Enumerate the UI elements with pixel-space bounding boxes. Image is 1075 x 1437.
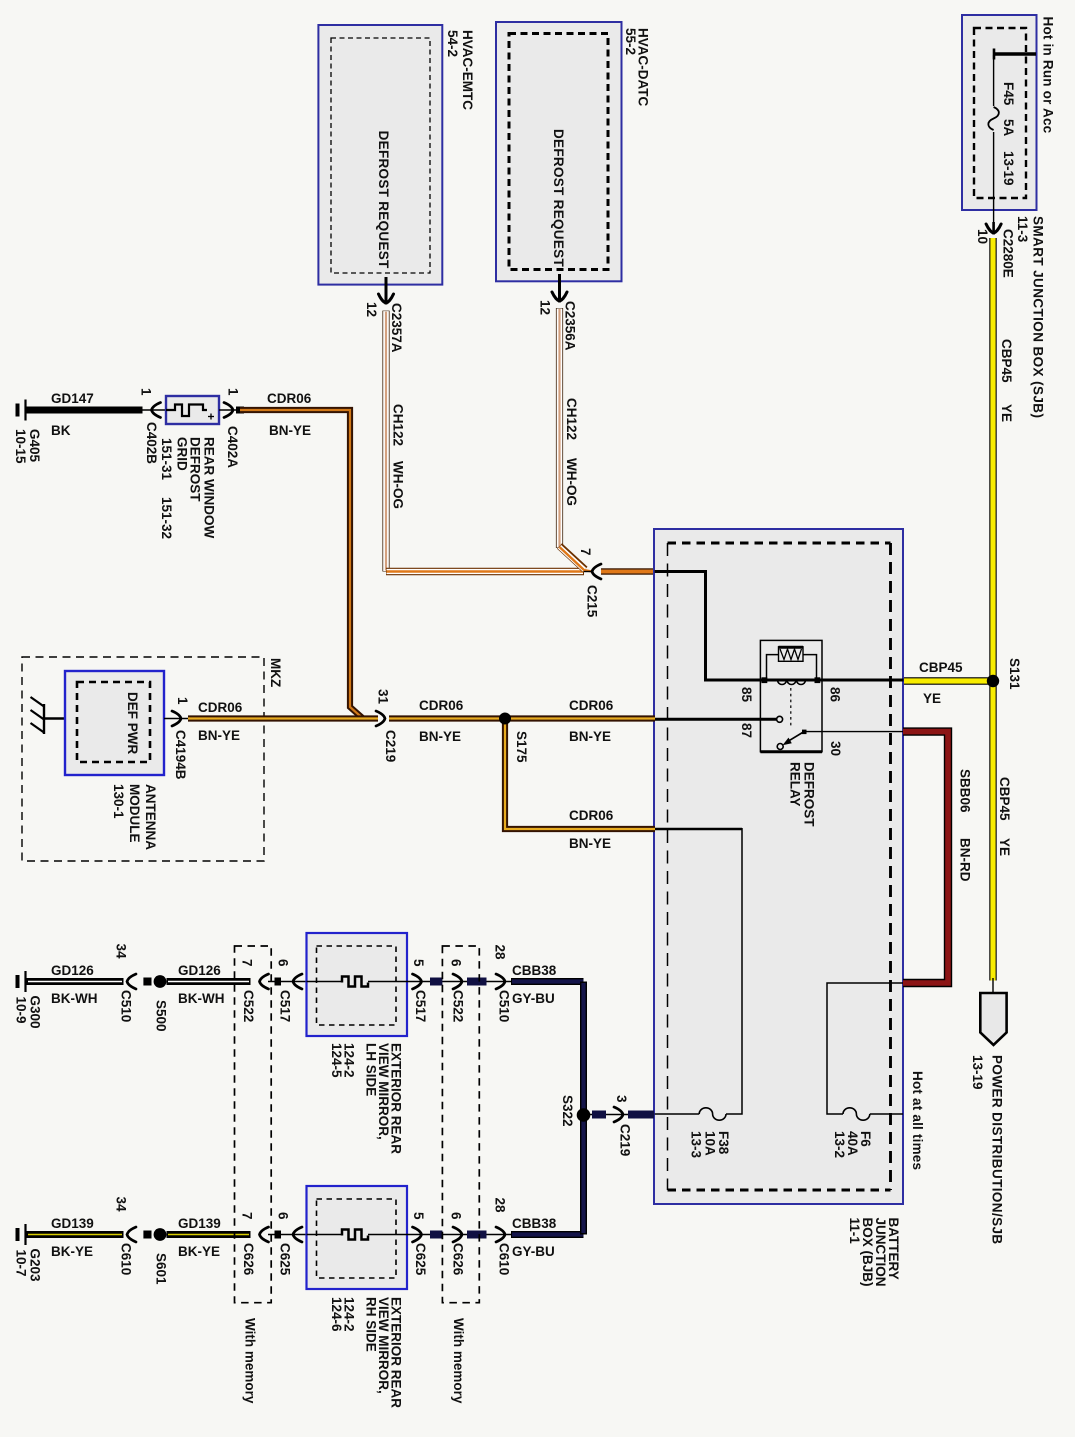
connector C517 right stub <box>430 978 442 986</box>
wire CH122 WH-OG from C2356A (vertical) <box>556 308 563 548</box>
fuse F45 element <box>988 107 999 130</box>
svg-text:BK-WH: BK-WH <box>51 991 98 1006</box>
svg-text:6: 6 <box>448 1212 463 1220</box>
connector C610 pin 34 arrow <box>127 1227 136 1242</box>
svg-text:YE: YE <box>923 691 941 706</box>
wire CBB38 GY-BU vertical to S322 <box>580 982 587 1235</box>
relay box DEFROST RELAY <box>760 640 822 751</box>
wire CH122 WH-OG diagonal into junction <box>560 546 586 570</box>
connector C517 pin 5 arrow <box>413 974 422 989</box>
svg-text:MODULE: MODULE <box>127 784 142 843</box>
mirror inner dashed border <box>317 1199 397 1278</box>
relay junction dot right <box>815 677 821 683</box>
connector C510 stub <box>143 978 151 986</box>
svg-text:SBB06: SBB06 <box>957 769 972 813</box>
svg-text:10-7: 10-7 <box>13 1250 28 1277</box>
svg-text:85: 85 <box>739 687 754 703</box>
wire CDR06 BN-YE from grid <box>240 410 363 719</box>
wire inside BJB from C215 to relay coil <box>655 572 761 681</box>
svg-text:GRID: GRID <box>174 437 189 471</box>
svg-text:5A: 5A <box>1001 119 1016 137</box>
svg-text:CBP45: CBP45 <box>999 339 1014 383</box>
svg-text:BK-YE: BK-YE <box>51 1244 93 1259</box>
connector C610 stub <box>143 1231 151 1239</box>
grid plus mark <box>208 416 214 418</box>
svg-text:5: 5 <box>411 959 426 967</box>
wire CBP45 YE main rail <box>989 238 996 981</box>
relay pivot square <box>802 730 807 735</box>
svg-text:With memory: With memory <box>451 1318 466 1404</box>
svg-text:BN-YE: BN-YE <box>269 423 311 438</box>
bus bar feeding fuse F45 <box>994 52 1036 56</box>
connector C215 pin 7 arrow <box>592 564 601 579</box>
svg-text:34: 34 <box>113 1197 128 1213</box>
svg-text:C610: C610 <box>118 1243 133 1275</box>
relay thermal element zigzag <box>780 649 802 660</box>
svg-text:With memory: With memory <box>242 1318 257 1404</box>
module HVAC-DATC box <box>496 22 622 281</box>
connector C4194B pin 1 arrow <box>172 711 181 726</box>
svg-text:BN-YE: BN-YE <box>569 836 611 851</box>
svg-text:30: 30 <box>828 741 843 756</box>
relay junction dot left <box>762 677 768 683</box>
svg-text:28: 28 <box>492 1198 507 1214</box>
svg-text:GY-BU: GY-BU <box>512 1244 555 1259</box>
svg-text:54-2: 54-2 <box>445 30 460 57</box>
SJB fuse box inner dashed border <box>974 28 1026 198</box>
svg-text:BN-RD: BN-RD <box>957 838 972 882</box>
wire SBB06 BN-RD <box>903 732 948 983</box>
wire WH-OG stub into BJB <box>601 568 655 574</box>
svg-text:F45: F45 <box>1001 82 1016 106</box>
wire CDR06 BN-YE C4194B to C219 <box>188 715 378 721</box>
connector C625 pin 6 arrow <box>293 1227 302 1242</box>
svg-text:CBB38: CBB38 <box>512 963 557 978</box>
svg-text:ANTENNA: ANTENNA <box>143 784 158 850</box>
svg-text:BN-YE: BN-YE <box>419 729 461 744</box>
svg-text:C219: C219 <box>383 730 398 762</box>
relay contact 87 circle <box>777 716 783 722</box>
svg-text:CH122: CH122 <box>390 404 405 446</box>
svg-text:S175: S175 <box>514 731 529 763</box>
svg-text:Hot at all times: Hot at all times <box>910 1071 925 1170</box>
relay thermal parallel branch left <box>767 655 779 680</box>
svg-text:S601: S601 <box>153 1253 168 1285</box>
svg-text:C625: C625 <box>277 1243 292 1276</box>
wire GD147 BK <box>27 407 143 414</box>
relay thermal element box <box>779 647 804 662</box>
svg-text:HVAC-EMTC: HVAC-EMTC <box>460 30 475 110</box>
svg-text:11-1: 11-1 <box>847 1218 862 1245</box>
POWER DISTRIBUTION/SJB off-page arrow <box>980 993 1006 1045</box>
svg-text:DEF PWR: DEF PWR <box>125 692 140 754</box>
svg-text:7: 7 <box>239 1212 254 1220</box>
wire merge into C215 <box>584 571 592 573</box>
svg-text:31: 31 <box>375 689 390 705</box>
fuse F38 element <box>699 1108 726 1120</box>
exterior mirror box <box>307 1186 408 1289</box>
svg-text:WH-OG: WH-OG <box>564 458 579 506</box>
connector C2280E pin 10 arrow <box>986 224 1001 233</box>
wire mirror to harness <box>407 1234 511 1236</box>
wire CDR06 lower branch inside BJB <box>655 828 742 830</box>
DEF PWR inner dashed border <box>77 682 150 762</box>
svg-text:5: 5 <box>411 1212 426 1220</box>
ground G405 <box>24 400 26 421</box>
antenna chassis symbol <box>43 704 45 734</box>
svg-text:7: 7 <box>239 959 254 967</box>
wire to C402B <box>140 409 166 411</box>
svg-text:C510: C510 <box>496 990 511 1022</box>
svg-text:S131: S131 <box>1007 658 1022 690</box>
wire antenna to DEF PWR box <box>44 717 65 720</box>
wire relay 30 to BJB edge <box>804 731 903 733</box>
wire lead to power distribution arrow <box>992 978 994 993</box>
mirror heater element <box>307 981 408 983</box>
svg-text:G405: G405 <box>27 429 42 463</box>
wire GD126 BK-WH segment 2 <box>167 978 251 985</box>
relay contact lower circle <box>777 744 783 750</box>
splice S322 dot <box>577 1108 591 1122</box>
svg-text:SMART JUNCTION BOX (SJB): SMART JUNCTION BOX (SJB) <box>1030 216 1045 418</box>
connector C625 square <box>275 1231 282 1239</box>
svg-text:CDR06: CDR06 <box>569 698 614 713</box>
wire CBB38 GY-BU <box>511 1231 584 1238</box>
svg-text:LH SIDE: LH SIDE <box>363 1043 378 1096</box>
svg-text:C402A: C402A <box>225 426 240 468</box>
svg-text:GD139: GD139 <box>51 1216 94 1231</box>
wire inside BJB to fuse F6 <box>827 983 903 1114</box>
svg-text:G300: G300 <box>27 996 42 1029</box>
wire relay 86 to BJB edge <box>822 679 904 682</box>
svg-text:C510: C510 <box>118 990 133 1022</box>
splice S601 dot <box>154 1228 167 1241</box>
exterior mirror box <box>307 933 408 1036</box>
svg-text:55-2: 55-2 <box>623 28 638 55</box>
connector C2356A pin 12 arrow <box>552 292 567 301</box>
svg-text:87: 87 <box>739 723 754 738</box>
wire S322 to C219 pin 3 <box>590 1114 654 1116</box>
connector C219 stub left <box>592 1111 606 1119</box>
svg-text:10A: 10A <box>702 1131 717 1156</box>
wire fuse F6 to hot at all times feed <box>870 1113 903 1115</box>
svg-text:C517: C517 <box>413 990 428 1022</box>
svg-text:C626: C626 <box>450 1243 465 1276</box>
wire grid to C402A <box>219 409 240 411</box>
connector C522 right stub <box>467 978 487 986</box>
relay switch dashed actuator line <box>790 688 792 728</box>
svg-text:BK-YE: BK-YE <box>178 1244 220 1259</box>
connector C610 pin 28 arrow <box>496 1227 505 1242</box>
svg-text:CBP45: CBP45 <box>997 777 1012 821</box>
wire CBP45 YE branch BJB to S131 <box>904 677 993 684</box>
MKZ dashed box <box>22 657 264 861</box>
svg-text:BN-YE: BN-YE <box>198 728 240 743</box>
pin stub C2356A <box>558 274 561 300</box>
svg-text:C517: C517 <box>277 990 292 1022</box>
connector C625 right stub <box>430 1231 442 1239</box>
grid element symbol <box>166 405 207 417</box>
svg-text:C219: C219 <box>617 1124 632 1156</box>
svg-text:Hot in Run or Acc: Hot in Run or Acc <box>1040 17 1055 134</box>
svg-text:RELAY: RELAY <box>787 762 802 807</box>
svg-text:6: 6 <box>275 959 290 967</box>
BJB inner dashed border <box>668 542 891 545</box>
svg-text:GY-BU: GY-BU <box>512 991 555 1006</box>
svg-text:10: 10 <box>975 229 990 244</box>
relay thermal parallel branch right <box>803 655 817 680</box>
svg-text:C625: C625 <box>413 1243 428 1276</box>
svg-text:12: 12 <box>537 300 552 315</box>
wire stub after C402A <box>236 407 244 414</box>
connector C626 pin 6 arrow <box>453 1227 462 1242</box>
svg-text:130-1: 130-1 <box>111 784 126 819</box>
svg-text:C2356A: C2356A <box>562 301 577 351</box>
with-memory dashed strip 1 <box>235 946 272 1303</box>
mirror heater element <box>307 1234 408 1236</box>
svg-text:GD139: GD139 <box>178 1216 221 1231</box>
HVAC-EMTC inner dashed border <box>331 38 430 273</box>
connector C626 pin 7 arrow <box>260 1227 269 1242</box>
svg-text:G203: G203 <box>27 1249 42 1283</box>
svg-text:POWER DISTRIBUTION/SJB: POWER DISTRIBUTION/SJB <box>989 1055 1004 1245</box>
svg-text:S322: S322 <box>560 1095 575 1127</box>
pin stub C2357A <box>385 277 388 303</box>
svg-text:RH SIDE: RH SIDE <box>363 1297 378 1352</box>
connector C510 pin 34 arrow <box>127 974 136 989</box>
svg-text:CDR06: CDR06 <box>419 698 464 713</box>
wire fuse F45 upper lead <box>993 55 995 106</box>
connector C219 stub right <box>628 1111 654 1119</box>
svg-text:BN-YE: BN-YE <box>569 729 611 744</box>
svg-text:C522: C522 <box>450 990 465 1022</box>
wire mirror to harness <box>407 981 511 983</box>
battery junction box (BJB) outline <box>654 529 903 1204</box>
wire into connector squares <box>268 1234 307 1236</box>
connector C522 pin 7 arrow <box>260 974 269 989</box>
svg-text:C2280E: C2280E <box>1000 229 1015 278</box>
connector C522 pin 6 arrow <box>453 974 462 989</box>
svg-text:YE: YE <box>999 404 1014 422</box>
svg-text:7: 7 <box>578 548 593 556</box>
HVAC-DATC inner dashed border (thick) <box>509 34 608 270</box>
svg-text:C522: C522 <box>241 990 256 1022</box>
svg-text:13-3: 13-3 <box>688 1131 703 1159</box>
svg-text:6: 6 <box>448 959 463 967</box>
svg-text:12: 12 <box>364 302 379 317</box>
svg-text:C4194B: C4194B <box>173 730 188 780</box>
svg-text:GD126: GD126 <box>51 963 94 978</box>
svg-text:3: 3 <box>614 1095 629 1103</box>
svg-text:GD126: GD126 <box>178 963 221 978</box>
wire CDR06 into relay 87 <box>655 718 777 721</box>
svg-text:CDR06: CDR06 <box>569 808 614 823</box>
SJB fuse box F45 outline <box>962 15 1037 210</box>
wire CH122 WH-OG from C2357A (vertical) <box>382 311 389 572</box>
svg-text:DEFROST REQUEST: DEFROST REQUEST <box>376 131 391 269</box>
svg-text:DEFROST: DEFROST <box>801 762 816 827</box>
relay coil wire 85-86 <box>761 679 822 682</box>
svg-text:GD147: GD147 <box>51 391 94 406</box>
splice S175 dot <box>499 713 511 725</box>
svg-text:C626: C626 <box>241 1243 256 1276</box>
ground G300 <box>24 971 26 992</box>
fuse F6 element <box>843 1108 870 1120</box>
svg-text:1: 1 <box>138 388 153 396</box>
svg-text:10-9: 10-9 <box>13 997 28 1024</box>
connector C402B pin 1 arrow <box>152 403 161 418</box>
wire DEF PWR to C4194B <box>164 718 188 720</box>
wire CDR06 BN-YE branch S175 down <box>505 719 655 830</box>
svg-text:34: 34 <box>113 944 128 960</box>
svg-text:CDR06: CDR06 <box>198 700 243 715</box>
connector C626 right stub <box>467 1231 487 1239</box>
svg-text:WH-OG: WH-OG <box>390 461 405 509</box>
connector C219 pin 31 arrow <box>376 711 385 726</box>
svg-text:10-15: 10-15 <box>13 429 28 464</box>
wire CBB38 GY-BU <box>511 978 584 985</box>
svg-text:DEFROST REQUEST: DEFROST REQUEST <box>551 129 566 267</box>
svg-text:CBP45: CBP45 <box>919 660 963 675</box>
svg-text:124-6: 124-6 <box>329 1297 344 1332</box>
svg-text:CDR06: CDR06 <box>267 391 312 406</box>
wire into connector squares <box>268 981 307 983</box>
svg-text:1: 1 <box>175 697 190 705</box>
wire CDR06 BN-YE C219 to S175 <box>389 715 505 721</box>
ground G203 <box>24 1224 26 1245</box>
svg-text:YE: YE <box>997 838 1012 856</box>
svg-text:S500: S500 <box>153 1000 168 1032</box>
svg-text:MKZ: MKZ <box>268 658 283 687</box>
svg-text:28: 28 <box>492 945 507 961</box>
connector C402A pin 1 arrow <box>224 403 233 418</box>
svg-text:86: 86 <box>827 687 842 703</box>
wire GD126 BK-WH segment 1 <box>27 978 124 985</box>
module DEF PWR box (antenna module) <box>65 671 164 775</box>
svg-text:13-19: 13-19 <box>970 1055 985 1090</box>
svg-text:6: 6 <box>275 1212 290 1220</box>
svg-text:151-32: 151-32 <box>159 497 174 539</box>
svg-text:REAR WINDOW: REAR WINDOW <box>201 437 216 538</box>
svg-text:13-2: 13-2 <box>832 1131 847 1158</box>
svg-text:C610: C610 <box>496 1243 511 1275</box>
relay switch arm <box>788 732 804 742</box>
svg-text:C2357A: C2357A <box>389 303 404 353</box>
connector C2357A pin 12 arrow <box>379 294 394 303</box>
svg-text:C215: C215 <box>584 585 599 618</box>
svg-text:124-5: 124-5 <box>329 1043 344 1078</box>
connector C510 pin 28 arrow <box>496 974 505 989</box>
with-memory dashed strip 2 <box>442 946 479 1303</box>
splice S500 dot <box>154 975 167 988</box>
wire fuse F38 to C219 pin 3 <box>655 1113 700 1115</box>
wire CH122 WH-OG from C2357A (horizontal) <box>386 568 584 575</box>
connector C517 pin 6 arrow <box>293 974 302 989</box>
svg-text:BK: BK <box>51 423 71 438</box>
wire CDR06 BN-YE S175 to BJB <box>505 715 655 721</box>
relay coil loops <box>778 680 806 685</box>
mirror inner dashed border <box>317 946 397 1025</box>
wire fuse F45 lower lead <box>993 132 995 231</box>
svg-text:151-31: 151-31 <box>159 438 174 481</box>
splice S131 dot <box>987 675 999 687</box>
svg-text:C402B: C402B <box>144 422 159 464</box>
svg-text:13-19: 13-19 <box>1001 151 1016 186</box>
svg-text:CH122: CH122 <box>564 398 579 440</box>
module HVAC-EMTC box <box>318 25 442 285</box>
svg-text:BK-WH: BK-WH <box>178 991 225 1006</box>
wire GD139 BK-YE segment 1 <box>27 1231 124 1238</box>
wire GD139 BK-YE segment 2 <box>167 1231 251 1238</box>
rear window defrost grid box <box>166 396 219 424</box>
connector C625 pin 5 arrow <box>413 1227 422 1242</box>
svg-text:CBB38: CBB38 <box>512 1216 557 1231</box>
connector C219 pin 3 arrow <box>614 1107 623 1122</box>
svg-text:11-3: 11-3 <box>1015 216 1030 243</box>
svg-text:1: 1 <box>225 388 240 396</box>
connector C517 square <box>275 978 282 986</box>
